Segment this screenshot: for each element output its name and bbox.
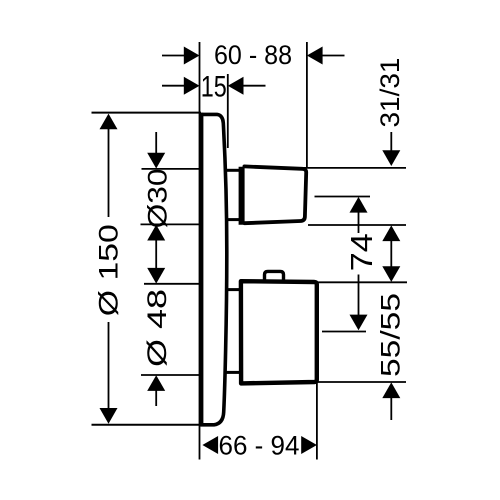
gap double arrow up xyxy=(382,225,400,241)
dia30-dia48 connector tail xyxy=(155,240,157,269)
dia48 arrow up (below handle bottom line) xyxy=(147,375,165,391)
dia150 arrow up xyxy=(100,114,118,130)
wall extension line xyxy=(199,42,201,460)
31/31 arrow tail xyxy=(390,132,392,151)
dim 60-88 tail left xyxy=(162,55,185,57)
dim 66-94 arrow right xyxy=(301,436,317,454)
74 upper tail xyxy=(358,212,360,233)
74 arrow down xyxy=(350,315,368,331)
dim 60-88 arrow right xyxy=(307,47,323,65)
dim 15 tail right xyxy=(243,85,266,87)
dia30 arrow up (below knob line) xyxy=(147,225,165,241)
55/55 arrow up (below handle bottom) xyxy=(382,382,400,398)
gap reference line y225 xyxy=(308,224,406,226)
dia30 top reference line xyxy=(142,168,202,170)
knob neck top edge xyxy=(227,169,241,172)
dim 60-88 tail right xyxy=(322,55,345,57)
handle centerline reference xyxy=(322,331,366,333)
dia150 dimension line upper segment xyxy=(108,128,110,217)
knob back edge xyxy=(239,167,245,225)
dim 60-88 arrow left xyxy=(184,47,200,65)
handle neck top edge xyxy=(227,288,240,291)
dia48 bottom reference line xyxy=(141,374,201,376)
dia48 top reference line xyxy=(144,283,201,285)
74 arrow up xyxy=(350,197,368,213)
dim 15 arrow right xyxy=(228,77,244,95)
55/55 arrow tail xyxy=(390,397,392,420)
svg-text:Ø 150: Ø 150 xyxy=(94,224,124,316)
svg-text:Ø30: Ø30 xyxy=(143,168,173,228)
svg-text:31/31: 31/31 xyxy=(375,58,405,128)
handle face extension line xyxy=(316,382,318,460)
gap double arrow down xyxy=(382,266,400,282)
handle tab xyxy=(265,271,284,281)
svg-text:55/55: 55/55 xyxy=(376,293,406,377)
dia48 arrow down (above handle top line) xyxy=(147,268,165,284)
knob centerline reference xyxy=(315,196,371,198)
knob face extension line xyxy=(306,42,308,168)
handle top reference line xyxy=(318,281,407,283)
svg-text:Ø 48: Ø 48 xyxy=(142,289,172,367)
dim 66-94 arrow left xyxy=(202,436,218,454)
74 lower tail xyxy=(358,275,360,316)
svg-text:15: 15 xyxy=(201,70,227,103)
handle bottom reference line xyxy=(318,381,406,383)
31/31 reference line (knob top extended) xyxy=(300,167,406,169)
dia150 dimension line lower segment xyxy=(108,322,110,409)
svg-text:74: 74 xyxy=(344,233,379,271)
dia150 arrow down xyxy=(100,408,118,424)
31/31 arrow down xyxy=(382,150,400,166)
dia30 arrow down xyxy=(147,153,165,169)
dia150 top reference line xyxy=(92,112,202,114)
15 right extension line xyxy=(227,74,229,148)
dia150 bottom reference line xyxy=(92,424,202,426)
dia30 bottom reference line xyxy=(141,223,202,225)
escutcheon plate outline xyxy=(201,114,227,424)
handle body outline xyxy=(241,281,317,383)
dim 15 arrow left xyxy=(184,77,200,95)
dim 15 tail left xyxy=(162,85,185,87)
gap double arrow tail xyxy=(390,240,392,267)
escutcheon plate left edge xyxy=(199,113,203,426)
svg-text:66 - 94: 66 - 94 xyxy=(219,431,300,461)
knob body outline xyxy=(244,166,306,223)
svg-text:60 - 88: 60 - 88 xyxy=(214,40,292,70)
dia30 upper arrow tail xyxy=(155,132,157,154)
handle neck bottom edge xyxy=(226,371,240,374)
dia48 lower arrow tail xyxy=(155,390,157,406)
knob neck bottom edge xyxy=(227,218,240,221)
